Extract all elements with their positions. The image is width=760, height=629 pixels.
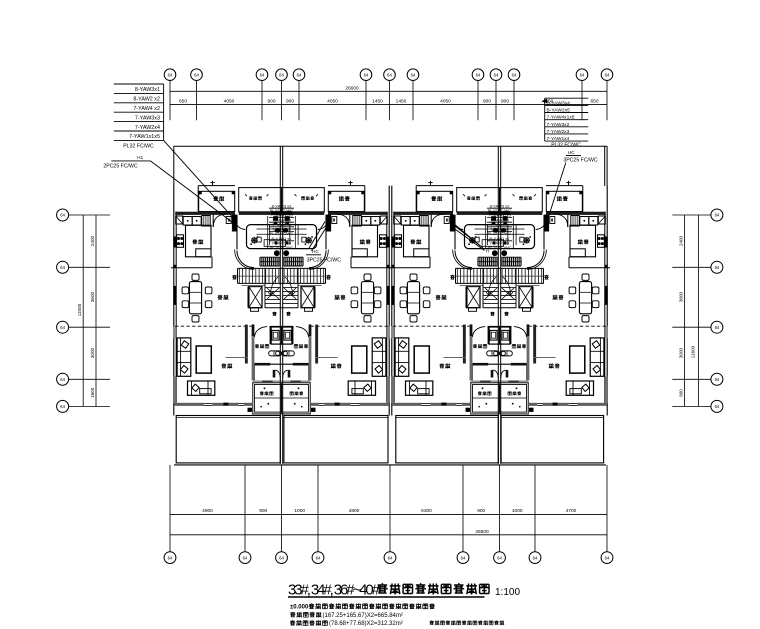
svg-text:900: 900 bbox=[286, 98, 294, 104]
svg-text:6300: 6300 bbox=[421, 508, 432, 514]
svg-text:2PC25 FC/WC: 2PC25 FC/WC bbox=[103, 163, 138, 169]
svg-text:64: 64 bbox=[60, 213, 65, 218]
svg-text:7-YAW4x1x5: 7-YAW4x1x5 bbox=[547, 115, 575, 121]
svg-text:64: 64 bbox=[461, 555, 466, 560]
svg-text:64: 64 bbox=[388, 555, 393, 560]
svg-text:64: 64 bbox=[605, 72, 610, 77]
svg-text:2400: 2400 bbox=[678, 235, 683, 246]
svg-text:900: 900 bbox=[267, 98, 275, 104]
svg-text:4050: 4050 bbox=[440, 98, 451, 104]
svg-text:900: 900 bbox=[259, 508, 267, 514]
svg-text:1000: 1000 bbox=[512, 508, 523, 514]
svg-text:HC: HC bbox=[312, 249, 319, 254]
svg-text:8-YAW2 x2: 8-YAW2 x2 bbox=[133, 97, 160, 103]
svg-text:4050: 4050 bbox=[224, 98, 235, 104]
svg-text:7-YAW2x3: 7-YAW2x3 bbox=[547, 129, 570, 135]
svg-text:64: 64 bbox=[512, 72, 517, 77]
svg-text:7-YAW3x2: 7-YAW3x2 bbox=[547, 122, 570, 128]
svg-text:64: 64 bbox=[168, 555, 173, 560]
svg-text:64: 64 bbox=[580, 72, 585, 77]
svg-text:64: 64 bbox=[533, 555, 538, 560]
svg-text:650: 650 bbox=[179, 98, 187, 104]
svg-text:4050: 4050 bbox=[327, 98, 338, 104]
svg-text:11000: 11000 bbox=[77, 303, 82, 316]
svg-text:2400: 2400 bbox=[90, 235, 95, 246]
svg-text:B-YAW2x5: B-YAW2x5 bbox=[547, 108, 571, 114]
svg-text:B-YAW3x4: B-YAW3x4 bbox=[547, 100, 571, 106]
svg-text:64: 64 bbox=[168, 72, 173, 77]
svg-text:64: 64 bbox=[715, 265, 720, 270]
svg-text:64: 64 bbox=[605, 555, 610, 560]
svg-text:64: 64 bbox=[497, 555, 502, 560]
svg-text:7-YAW1x1x5: 7-YAW1x1x5 bbox=[129, 134, 160, 140]
svg-text:7-YAW3x3: 7-YAW3x3 bbox=[135, 115, 160, 121]
svg-text:900: 900 bbox=[483, 98, 491, 104]
svg-text:64: 64 bbox=[476, 72, 481, 77]
svg-text:26600: 26600 bbox=[345, 86, 359, 92]
svg-text:64: 64 bbox=[411, 72, 416, 77]
svg-text:1000: 1000 bbox=[294, 508, 305, 514]
svg-text:7-YAW1x4: 7-YAW1x4 bbox=[547, 136, 570, 142]
svg-text:3600: 3600 bbox=[678, 291, 683, 302]
svg-text:4900: 4900 bbox=[202, 508, 213, 514]
svg-text:64: 64 bbox=[715, 213, 720, 218]
svg-text:64: 64 bbox=[60, 404, 65, 409]
svg-text:3000: 3000 bbox=[678, 347, 683, 358]
svg-text:3PC25 FC/WC: 3PC25 FC/WC bbox=[307, 258, 342, 264]
svg-text:64: 64 bbox=[243, 555, 248, 560]
svg-text:64: 64 bbox=[260, 72, 265, 77]
svg-text:33#, 34#, 36#~40#: 33#, 34#, 36#~40# bbox=[288, 582, 381, 599]
svg-text:8-YAW3x1: 8-YAW3x1 bbox=[135, 87, 160, 93]
svg-text:3000: 3000 bbox=[90, 347, 95, 358]
svg-text:7-YAW4 x2: 7-YAW4 x2 bbox=[133, 106, 160, 112]
svg-text:64: 64 bbox=[715, 377, 720, 382]
svg-text:11600: 11600 bbox=[690, 345, 695, 358]
svg-text:64: 64 bbox=[715, 404, 720, 409]
svg-text:H: H bbox=[486, 249, 489, 254]
svg-text:64: 64 bbox=[387, 72, 392, 77]
svg-text:PL32 FC/WC: PL32 FC/WC bbox=[123, 143, 154, 149]
svg-text:7-YAW2x4: 7-YAW2x4 bbox=[135, 125, 160, 131]
svg-text:64: 64 bbox=[494, 72, 499, 77]
svg-text:900: 900 bbox=[501, 98, 509, 104]
svg-text:3600: 3600 bbox=[90, 291, 95, 302]
svg-text:64: 64 bbox=[60, 325, 65, 330]
svg-text:(78.68+77.68)X2=312.32m²: (78.68+77.68)X2=312.32m² bbox=[329, 621, 403, 627]
svg-text:1450: 1450 bbox=[372, 98, 383, 104]
svg-text:64: 64 bbox=[279, 555, 284, 560]
svg-text:64: 64 bbox=[194, 72, 199, 77]
svg-text:HC: HC bbox=[568, 150, 575, 155]
svg-text:(167.25+165.67)X2=665.84m²: (167.25+165.67)X2=665.84m² bbox=[323, 613, 403, 619]
svg-text:4800: 4800 bbox=[349, 508, 360, 514]
svg-text:3PC25 FC/WC: 3PC25 FC/WC bbox=[563, 158, 598, 164]
svg-text:1600: 1600 bbox=[90, 387, 95, 398]
svg-text:±0.000: ±0.000 bbox=[290, 604, 309, 610]
svg-text:PL32 FC/WC: PL32 FC/WC bbox=[551, 142, 581, 148]
svg-text:64: 64 bbox=[316, 555, 321, 560]
svg-text:64: 64 bbox=[364, 72, 369, 77]
svg-text:64: 64 bbox=[60, 265, 65, 270]
svg-text:64: 64 bbox=[715, 325, 720, 330]
svg-text:H1: H1 bbox=[137, 155, 143, 160]
svg-text:64: 64 bbox=[279, 72, 284, 77]
svg-text:64: 64 bbox=[60, 377, 65, 382]
svg-text:900: 900 bbox=[477, 508, 485, 514]
svg-text:64: 64 bbox=[297, 72, 302, 77]
svg-text:1:100: 1:100 bbox=[495, 587, 520, 598]
svg-text:900: 900 bbox=[678, 389, 683, 397]
svg-text:26500: 26500 bbox=[475, 529, 489, 535]
svg-text:1450: 1450 bbox=[396, 98, 407, 104]
svg-text:4700: 4700 bbox=[566, 508, 577, 514]
svg-text:650: 650 bbox=[590, 98, 598, 104]
